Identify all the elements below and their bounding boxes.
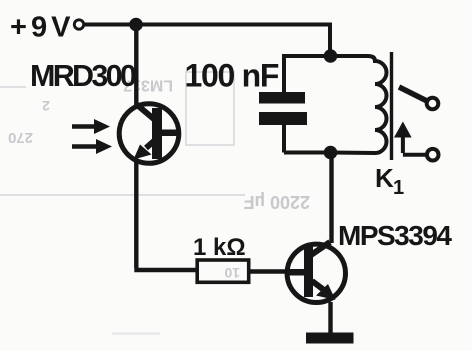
ghost box (show-through) (0, 72, 245, 195)
wire cap top lead (284, 54, 330, 92)
phototransistor Q1 MRD300 (119, 104, 179, 164)
svg-text:K: K (375, 163, 394, 193)
svg-text:MPS3394: MPS3394 (338, 220, 452, 251)
wire collector MRD300 (134, 25, 138, 107)
faint smudge bottom (112, 332, 160, 335)
relay actuation arrow (394, 122, 426, 155)
node junction cap-top (324, 49, 338, 63)
node junction cap-bottom (324, 146, 338, 160)
wire cap bottom lead (284, 125, 330, 153)
wire emitter MPS3394 (328, 302, 332, 333)
relay core bar (390, 52, 393, 160)
relay K1 coil (331, 56, 387, 153)
transistor Q2 MPS3394 (286, 242, 345, 303)
+9V terminal (74, 20, 83, 29)
svg-text:MRD300: MRD300 (30, 59, 136, 93)
wire top-right corner down (328, 23, 332, 57)
svg-text:100 nF: 100 nF (185, 58, 279, 94)
svg-text:1: 1 (393, 177, 404, 199)
svg-text:1 kΩ: 1 kΩ (193, 234, 246, 261)
relay contact bottom (427, 149, 439, 161)
capacitor C1 100nF plate top (259, 92, 305, 104)
wire emitter MRD300 down (134, 160, 198, 270)
capacitor C1 plate bottom (259, 112, 307, 125)
svg-text:270: 270 (8, 129, 33, 146)
svg-text:2200 µF: 2200 µF (244, 192, 310, 212)
svg-text:+ 9 V: + 9 V (10, 12, 71, 44)
ground (306, 333, 354, 344)
svg-text:2: 2 (42, 98, 50, 114)
node junction top rail (129, 18, 143, 32)
wire collector MPS3394 (from cap-bottom node) (329, 153, 333, 244)
wire base MPS3394 (249, 269, 290, 273)
resistor R1 1k (197, 260, 249, 282)
wire top rail (85, 23, 331, 27)
light arrow 1 (72, 119, 110, 134)
svg-text:10: 10 (224, 265, 240, 281)
relay contact top (427, 98, 439, 110)
light arrow 2 (72, 139, 112, 154)
relay switch lever (399, 87, 427, 101)
